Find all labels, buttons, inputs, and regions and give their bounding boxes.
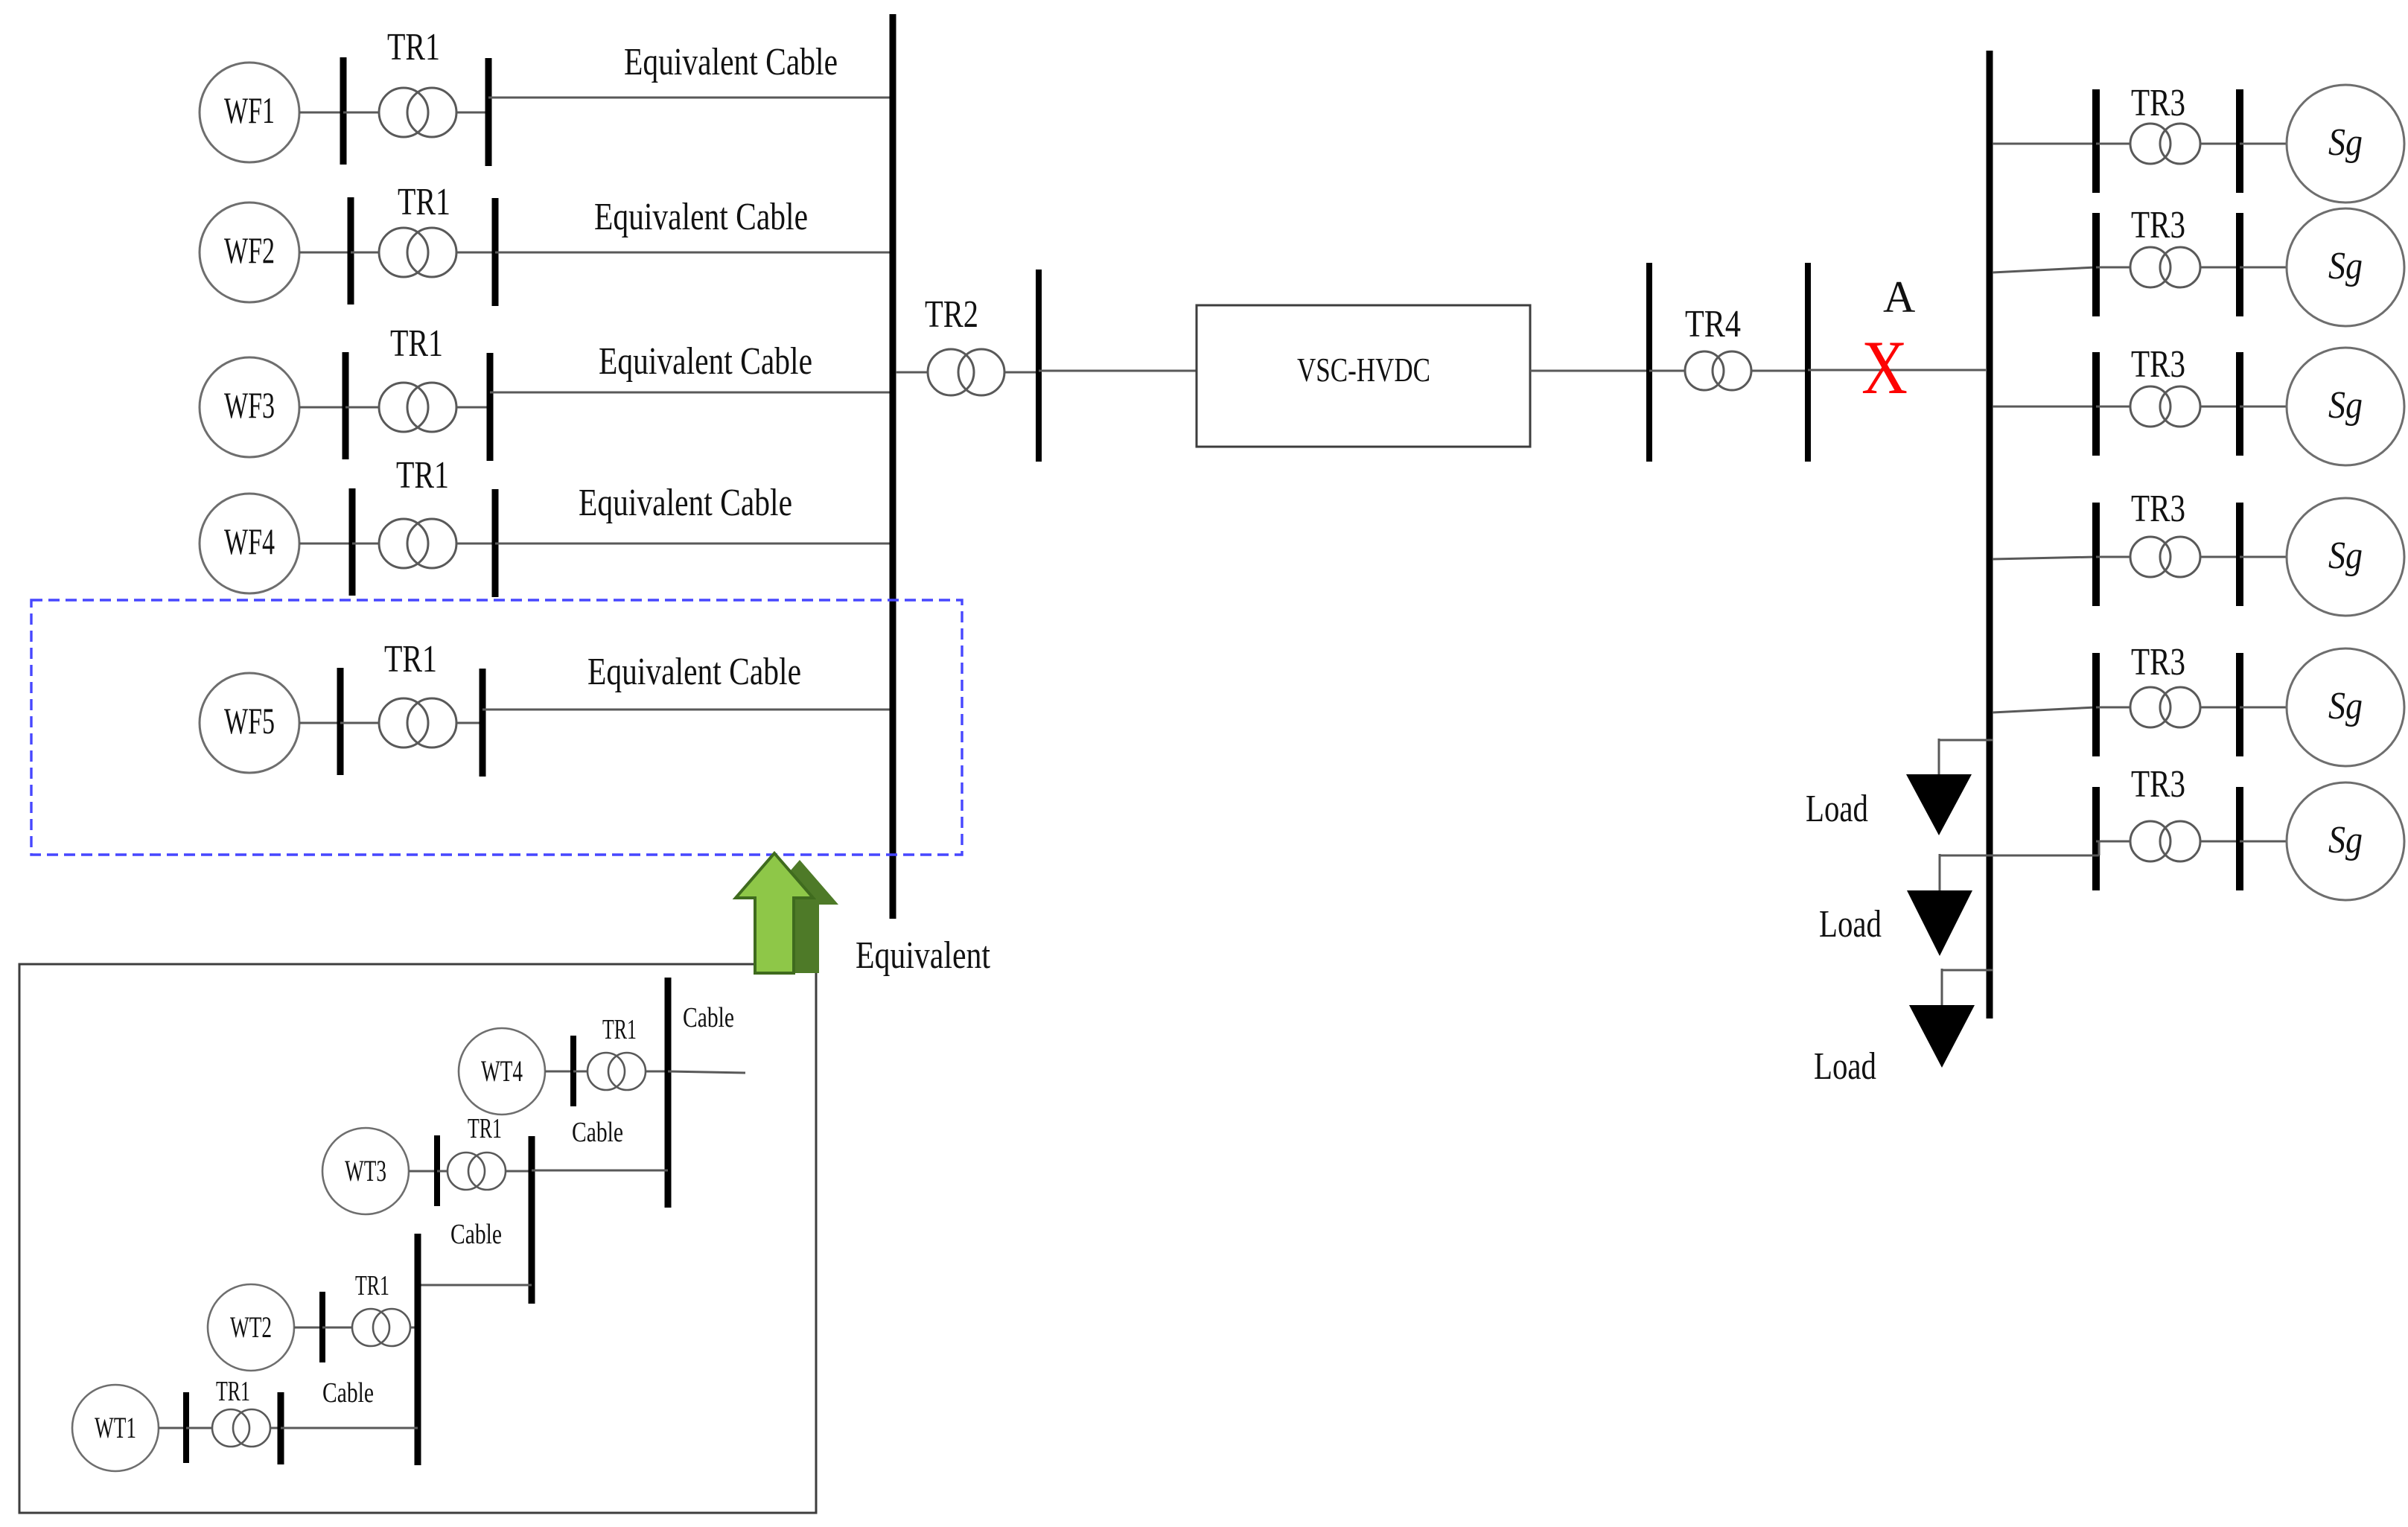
bus bar WT2 <box>319 1292 325 1362</box>
wire bus to transformer TR1 (WT3) <box>437 1170 447 1173</box>
transformer TR3 row 6 <box>2130 821 2170 861</box>
wind farm WF2 generator circle <box>200 203 299 302</box>
transformer TR3 row 5 <box>2130 687 2170 727</box>
wire bus to TR3 row 4 <box>2096 556 2130 558</box>
svg-text:Sg: Sg <box>2328 685 2363 727</box>
transformer TR2 <box>928 349 974 395</box>
svg-text:X: X <box>1861 325 1908 410</box>
synchronous generator Sg row 4 <box>2287 498 2404 616</box>
svg-text:TR1: TR1 <box>216 1376 250 1407</box>
svg-text:A: A <box>1883 272 1915 322</box>
svg-text:Load: Load <box>1814 1045 1876 1088</box>
wire transformer to bus <box>456 543 495 545</box>
grid main bus (right vertical bus) <box>1987 51 1993 1018</box>
wire to generator Sg row 2 <box>2240 267 2287 269</box>
wire bus to TR3 row 2 <box>2096 267 2130 269</box>
wire bus to TR4 <box>1649 370 1685 372</box>
svg-text:TR2: TR2 <box>925 293 978 336</box>
wire WF5 to bus <box>299 722 340 724</box>
wire transformer onward (WT3) <box>506 1170 532 1173</box>
wire TR3 to HV bus row 1 <box>2200 143 2240 145</box>
svg-text:TR3: TR3 <box>2131 763 2185 806</box>
svg-text:TR1: TR1 <box>355 1270 389 1301</box>
wind turbine WT3 <box>322 1128 409 1214</box>
wind turbine WT2 <box>208 1284 294 1371</box>
wire bus to TR3 row 3 <box>2096 406 2130 408</box>
svg-text:Sg: Sg <box>2328 384 2363 427</box>
transformer TR3 row 3 <box>2130 386 2170 427</box>
bus bar WF4 LV <box>349 488 356 596</box>
synchronous generator Sg row 3 <box>2287 348 2404 465</box>
svg-text:WT2: WT2 <box>230 1310 272 1344</box>
svg-text:TR1: TR1 <box>398 181 450 223</box>
TR4 HV bus bar <box>1805 263 1811 462</box>
transformer TR3 row 4 <box>2130 537 2170 577</box>
bus bar WF3 LV <box>343 352 349 459</box>
transformer TR1 (WF5) <box>379 698 428 747</box>
svg-text:Cable: Cable <box>572 1117 623 1148</box>
transformer TR1 (WT1) <box>212 1409 249 1447</box>
wire bus1 to TR3 row 6 <box>2098 841 2100 855</box>
svg-text:TR1: TR1 <box>390 322 443 365</box>
svg-text:TR1: TR1 <box>602 1014 637 1045</box>
wind farm WF3 generator circle <box>200 357 299 457</box>
wire TR4 to HV bus <box>1751 370 1808 372</box>
wire transformer to bus <box>456 252 495 254</box>
svg-text:TR3: TR3 <box>2131 641 2185 683</box>
wire to generator Sg row 1 <box>2240 143 2287 145</box>
svg-text:TR3: TR3 <box>2131 82 2185 124</box>
collector bus (left main vertical bus) <box>890 14 896 919</box>
svg-text:TR1: TR1 <box>384 638 437 680</box>
branch wire grid bus to TR3 row 4 <box>1993 557 2096 559</box>
svg-text:Equivalent Cable: Equivalent Cable <box>594 196 808 238</box>
load 1 tap wire <box>1939 739 1993 742</box>
svg-text:Equivalent Cable: Equivalent Cable <box>587 651 801 693</box>
wire bus to transformer TR1 <box>351 252 379 254</box>
load 1 arrow <box>1906 774 1972 835</box>
wire collector bus to TR2 <box>896 372 928 374</box>
wire WF4 to bus <box>299 543 352 545</box>
bus bar row 4 HV <box>2236 503 2243 606</box>
cable WT2 collector bus to WT3 bus <box>418 1284 532 1287</box>
bus bar WF1 HV <box>485 58 492 166</box>
green equivalent arrow <box>736 853 813 973</box>
wire transformer onward (WT1) <box>270 1427 281 1429</box>
wire to generator Sg row 5 <box>2240 707 2287 709</box>
transformer TR1 (WF2) <box>379 228 428 277</box>
wire bus to transformer TR1 <box>352 543 379 545</box>
bus bar WT3 <box>434 1135 440 1206</box>
svg-text:VSC-HVDC: VSC-HVDC <box>1297 351 1430 389</box>
wire WT1 to bus <box>159 1427 186 1429</box>
wire bus to transformer TR1 (WT2) <box>322 1327 352 1329</box>
wire bus to TR3 row 1 <box>2096 143 2130 145</box>
svg-text:WT4: WT4 <box>481 1054 523 1088</box>
branch wire grid bus to TR3 row 3 <box>1993 406 2096 408</box>
transformer TR1 (WT4) <box>587 1053 625 1090</box>
equivalent cable WF1 to collector bus <box>488 97 893 99</box>
wind turbine WT4 <box>459 1028 545 1115</box>
wire TR2 to sending bus <box>1004 372 1039 374</box>
wire WF1 to bus <box>299 112 343 114</box>
cable stub from WT4 collector bus <box>668 1071 745 1073</box>
bus bar WF2 LV <box>348 197 354 305</box>
svg-text:WF4: WF4 <box>224 520 275 562</box>
wire bus to transformer TR1 <box>343 112 379 114</box>
bus bar WF5 HV <box>480 669 486 777</box>
bus bar row 2 HV <box>2236 213 2243 316</box>
wire to generator Sg row 6 <box>2240 841 2287 843</box>
cable WT3 bus to WT4 collector bus <box>532 1170 668 1172</box>
transformer TR3 row 2 <box>2130 247 2170 287</box>
wire transformer onward (WT2) <box>410 1327 418 1329</box>
svg-text:Cable: Cable <box>322 1377 374 1409</box>
bus bar row 3 LV <box>2092 352 2100 456</box>
tie line to grid bus (node A) <box>1808 369 1986 372</box>
wire TR3 to HV bus row 2 <box>2200 267 2240 269</box>
equivalent cable WF4 to collector bus <box>495 543 893 545</box>
svg-text:WT1: WT1 <box>95 1411 136 1444</box>
branch wire grid bus to TR3 row 5 <box>1993 707 2096 713</box>
load 3 arrow <box>1909 1005 1975 1068</box>
transformer TR1 (WF4) <box>379 519 428 568</box>
load 2 arrow <box>1907 890 1972 956</box>
svg-text:WF2: WF2 <box>224 229 275 271</box>
bus bar row 5 HV <box>2236 653 2243 756</box>
wire TR3 to HV bus row 5 <box>2200 707 2240 709</box>
svg-text:Cable: Cable <box>683 1002 734 1033</box>
bus bar WT3 HV <box>529 1136 535 1304</box>
svg-text:Sg: Sg <box>2328 819 2363 861</box>
svg-text:Sg: Sg <box>2328 245 2363 287</box>
bus bar WT4 <box>570 1036 576 1106</box>
wire bus to transformer TR1 (WT4) <box>573 1071 587 1073</box>
wire bus to transformer TR1 (WT1) <box>186 1427 212 1429</box>
bus bar WF4 HV <box>492 489 499 597</box>
load 3 tap wire <box>1942 969 1993 972</box>
svg-text:TR4: TR4 <box>1685 303 1741 345</box>
equivalent cable WF2 to collector bus <box>495 252 893 254</box>
equivalent cable WF5 to collector bus <box>482 709 893 711</box>
transformer TR3 row 1 <box>2130 124 2170 164</box>
svg-text:WF3: WF3 <box>224 384 275 426</box>
svg-text:Equivalent Cable: Equivalent Cable <box>579 482 792 524</box>
wire transformer to bus <box>456 722 482 724</box>
synchronous generator Sg row 5 <box>2287 648 2404 766</box>
wire transformer to bus <box>456 112 488 114</box>
svg-text:Equivalent Cable: Equivalent Cable <box>599 340 812 383</box>
bus bar row 3 HV <box>2236 352 2243 456</box>
svg-text:Sg: Sg <box>2328 121 2363 164</box>
wire to generator Sg row 4 <box>2240 556 2287 558</box>
wind farm WF5 generator circle <box>200 673 299 773</box>
svg-text:TR1: TR1 <box>387 26 440 68</box>
transformer TR1 (WT2) <box>352 1309 389 1346</box>
wire TR3 to HV bus row 6 <box>2200 841 2240 843</box>
wire bus to TR3 row 5 <box>2096 707 2130 709</box>
synchronous generator Sg row 1 <box>2287 85 2404 203</box>
wire bus to transformer TR1 <box>340 722 379 724</box>
bus bar row 1 HV <box>2236 89 2243 193</box>
blue dashed rectangle (aggregated wind farm WF5) <box>31 600 962 855</box>
wind farm WF1 generator circle <box>200 63 299 162</box>
synchronous generator Sg row 6 <box>2287 782 2404 900</box>
wire TR3 to HV bus row 4 <box>2200 556 2240 558</box>
svg-text:Equivalent: Equivalent <box>856 934 990 977</box>
wire bus to TR3 row 6 <box>2096 841 2130 843</box>
load 2 tap wire + branch wire row 6 <box>1940 855 2099 857</box>
synchronous generator Sg row 2 <box>2287 208 2404 326</box>
wire bus to transformer TR1 <box>345 407 379 409</box>
bus bar row 4 LV <box>2092 503 2100 606</box>
svg-text:WT3: WT3 <box>345 1154 386 1188</box>
wind turbine WT1 <box>72 1385 159 1471</box>
wire VSC-HVDC to TR4 bus <box>1530 370 1649 372</box>
wire to generator Sg row 3 <box>2240 406 2287 408</box>
sending-end bus bar <box>1036 270 1042 462</box>
svg-text:Cable: Cable <box>450 1219 502 1250</box>
green equivalent arrow (3D shadow) <box>761 860 838 973</box>
svg-text:WF5: WF5 <box>224 700 275 742</box>
wire WF3 to bus <box>299 407 345 409</box>
svg-text:TR1: TR1 <box>396 454 449 497</box>
branch wire grid bus to TR3 row 2 <box>1993 267 2096 272</box>
bus bar WF3 HV <box>487 353 494 461</box>
branch wire grid bus to TR3 row 1 <box>1993 143 2096 145</box>
bus bar WF5 LV <box>337 668 344 775</box>
svg-text:TR3: TR3 <box>2131 204 2185 246</box>
svg-text:Load: Load <box>1819 903 1882 946</box>
bus bar row 1 LV <box>2092 89 2100 193</box>
bus bar WF1 LV <box>340 57 347 165</box>
svg-text:Load: Load <box>1806 788 1868 830</box>
svg-text:WF1: WF1 <box>224 89 275 131</box>
svg-text:Equivalent Cable: Equivalent Cable <box>624 41 838 83</box>
wire WT2 to bus <box>294 1327 322 1329</box>
wire TR3 to HV bus row 3 <box>2200 406 2240 408</box>
wire transformer to bus <box>456 407 490 409</box>
bus bar row 6 HV <box>2236 787 2243 890</box>
VSC-HVDC converter block <box>1197 305 1530 447</box>
bus bar row 6 LV <box>2092 787 2100 890</box>
transformer TR4 <box>1685 351 1724 390</box>
bus bar WT1 <box>183 1392 189 1463</box>
svg-text:TR3: TR3 <box>2131 488 2185 530</box>
equivalent cable WF3 to collector bus <box>490 392 893 394</box>
svg-text:TR3: TR3 <box>2131 343 2185 386</box>
bus bar WF2 HV <box>492 198 499 306</box>
bus bar row 2 LV <box>2092 213 2100 316</box>
wind farm WF4 generator circle <box>200 494 299 593</box>
wire WF2 to bus <box>299 252 351 254</box>
collector bus WT2 <box>415 1234 421 1465</box>
svg-text:TR1: TR1 <box>468 1113 502 1144</box>
bus bar row 5 LV <box>2092 653 2100 756</box>
svg-text:Sg: Sg <box>2328 535 2363 577</box>
TR4 LV bus bar <box>1646 263 1652 462</box>
bus bar WT1 HV <box>278 1392 284 1464</box>
transformer TR1 (WF3) <box>379 383 428 432</box>
transformer TR1 (WT3) <box>447 1153 485 1190</box>
wire transformer onward (WT4) <box>646 1071 668 1073</box>
detailed wind farm box frame <box>19 964 816 1513</box>
wire WT4 to bus <box>545 1071 573 1073</box>
collector bus WT4 <box>665 978 672 1208</box>
transformer TR1 (WF1) <box>379 88 428 137</box>
wire WT3 to bus <box>409 1170 437 1173</box>
cable WT1 bus to WT2 collector bus <box>281 1427 418 1429</box>
wire sending bus to VSC-HVDC <box>1039 370 1197 372</box>
